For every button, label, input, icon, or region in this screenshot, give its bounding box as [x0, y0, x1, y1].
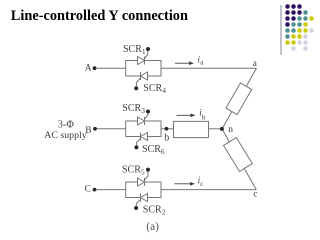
svg-text:c: c — [253, 190, 257, 200]
SCR1 — [138, 47, 151, 65]
svg-text:C: C — [85, 185, 91, 195]
svg-text:AC supply: AC supply — [44, 130, 87, 141]
current arrow i_b — [177, 114, 196, 118]
wire A output to node a — [161, 67, 257, 69]
svg-text:SCR6: SCR6 — [142, 144, 165, 156]
SCR pair box C — [126, 182, 161, 198]
svg-text:A: A — [85, 64, 92, 74]
svg-text:SCR3: SCR3 — [122, 103, 145, 115]
svg-text:SCR1: SCR1 — [123, 44, 146, 56]
svg-text:n: n — [228, 125, 233, 135]
SCR6 — [134, 133, 147, 150]
wire B output to load b — [161, 128, 174, 130]
wire A input — [95, 67, 126, 69]
SCR pair box B — [126, 121, 161, 137]
wire load b to node n — [209, 128, 223, 130]
current arrow i_a — [175, 61, 194, 65]
load resistor phase b — [174, 121, 209, 137]
svg-text:Line-controlled Y connection: Line-controlled Y connection — [11, 8, 188, 24]
load resistor phase a — [226, 83, 252, 115]
wire C input — [95, 189, 126, 191]
svg-text:a: a — [253, 59, 258, 69]
SCR3 — [138, 110, 151, 126]
svg-text:c: c — [200, 180, 203, 188]
node b — [165, 127, 169, 131]
svg-text:SCR2: SCR2 — [143, 204, 166, 216]
node B — [93, 127, 97, 131]
current arrow i_c — [175, 182, 196, 186]
svg-text:b: b — [164, 132, 169, 143]
SCR2 — [134, 194, 147, 211]
svg-text:b: b — [202, 113, 206, 121]
node n — [220, 127, 224, 131]
wire B input — [95, 128, 126, 130]
wire node a to n diagonal — [222, 68, 257, 129]
SCR4 — [134, 72, 147, 90]
svg-text:3-Φ: 3-Φ — [58, 120, 75, 131]
svg-text:SCR5: SCR5 — [122, 165, 145, 177]
SCR5 — [138, 168, 151, 186]
SCR pair box A — [126, 61, 161, 77]
logo sidebar line — [280, 5, 282, 55]
logo dot grid — [285, 4, 314, 51]
svg-text:(a): (a) — [146, 221, 159, 233]
wire C output to node c — [161, 189, 256, 191]
svg-text:a: a — [200, 58, 204, 66]
node A — [93, 66, 97, 70]
node C — [93, 188, 97, 192]
load resistor phase c — [224, 138, 253, 172]
wire node c to n diagonal — [222, 129, 256, 190]
svg-text:SCR4: SCR4 — [143, 83, 166, 95]
